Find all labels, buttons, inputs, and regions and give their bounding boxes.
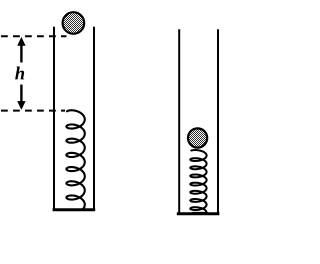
left tube right wall — [93, 27, 95, 211]
right tube right wall — [217, 29, 219, 214]
bottom dashed line (spring top level) — [1, 110, 65, 112]
ball (right, resting on spring) — [188, 128, 207, 147]
spring (right, compressed) — [190, 150, 206, 213]
label h — [15, 67, 24, 80]
spring (left, natural length) — [66, 110, 84, 210]
top dashed line (ball release level) — [1, 35, 67, 37]
right tube left wall — [178, 29, 180, 214]
right tube bottom — [177, 212, 220, 215]
ball (left, at top of tube) — [63, 12, 85, 34]
left tube left wall — [53, 27, 55, 211]
arrow h (double-headed) — [17, 37, 25, 110]
left tube bottom — [53, 208, 96, 211]
